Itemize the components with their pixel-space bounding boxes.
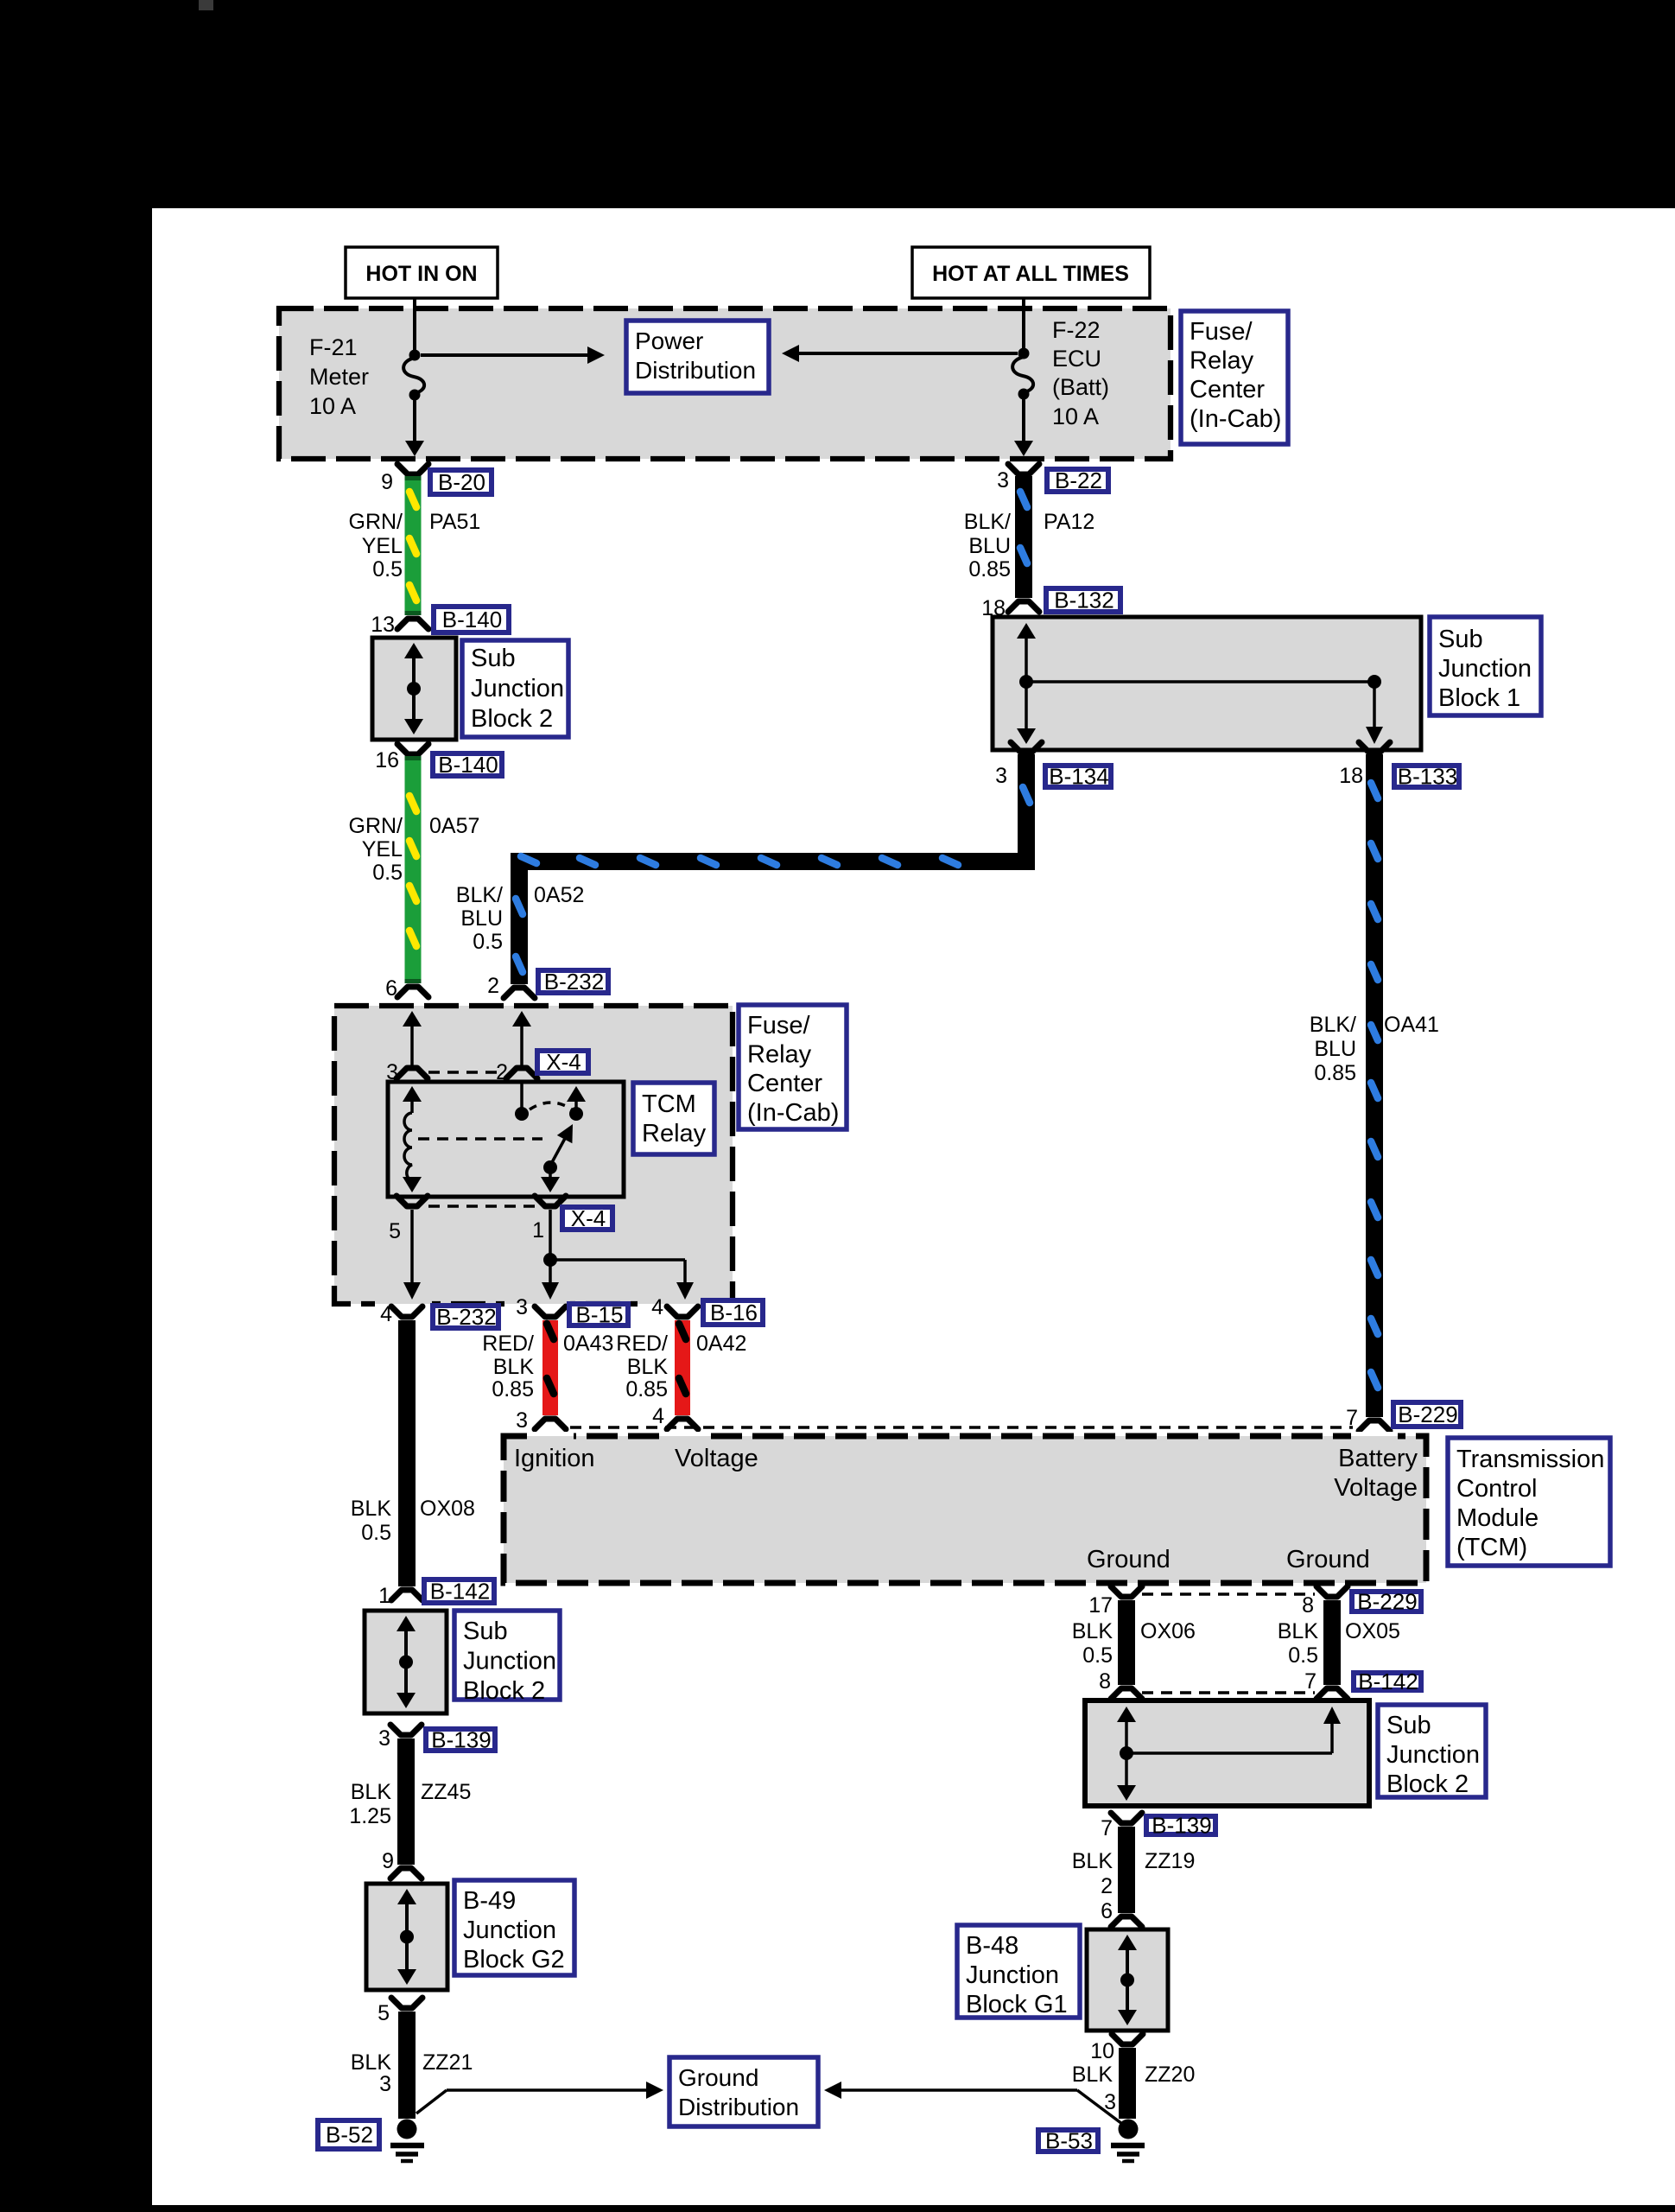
svg-text:F-22: F-22	[1052, 317, 1101, 343]
svg-text:OX06: OX06	[1140, 1619, 1196, 1643]
connector X-4 pin 1	[532, 1196, 566, 1243]
net name 0A52	[534, 883, 584, 907]
connector B-142 pin 8	[1099, 1669, 1142, 1699]
svg-text:B-53: B-53	[1045, 2128, 1093, 2154]
svg-text:BLK: BLK	[1072, 1849, 1113, 1873]
connector B-140 pin 16	[375, 744, 428, 772]
sub junction block 1	[993, 617, 1421, 750]
svg-text:2: 2	[487, 974, 499, 998]
label B-142 (left)	[424, 1579, 494, 1605]
label B-232 (bottom)	[433, 1304, 498, 1330]
connector B-15 pin 3 (top)	[516, 1295, 566, 1319]
svg-text:9: 9	[382, 1849, 394, 1873]
svg-text:ECU: ECU	[1052, 346, 1101, 372]
value label BLK 0.5 (OX06)	[1072, 1619, 1113, 1668]
connector pin 10 of B-48	[1090, 2034, 1143, 2063]
connector X-4 pin 3	[386, 1060, 428, 1084]
svg-text:(In-Cab): (In-Cab)	[1190, 405, 1281, 433]
value label GRN/YEL 0.5 (PA51)	[349, 510, 403, 582]
svg-text:Power: Power	[635, 327, 703, 354]
node HOT IN ON	[346, 247, 498, 298]
svg-text:ZZ20: ZZ20	[1145, 2063, 1195, 2087]
svg-text:Block 2: Block 2	[463, 1677, 545, 1705]
link TCM connector pins	[570, 1426, 1353, 1429]
connector B-229 pin 7	[1346, 1406, 1390, 1431]
label X-4 (bottom)	[562, 1205, 612, 1231]
svg-text:Battery: Battery	[1338, 1445, 1418, 1472]
link B-142 pins 8-7	[1142, 1691, 1315, 1694]
label B-52	[318, 2120, 379, 2149]
svg-text:18: 18	[1339, 764, 1363, 788]
svg-text:X-4: X-4	[571, 1205, 606, 1231]
svg-text:0A42: 0A42	[696, 1332, 746, 1356]
svg-text:3: 3	[379, 2072, 391, 2096]
net name OX05	[1345, 1619, 1400, 1643]
svg-text:Block 2: Block 2	[1386, 1770, 1469, 1798]
svg-text:Ground: Ground	[1286, 1546, 1370, 1573]
wire relay pin 1 down with branch	[542, 1210, 694, 1300]
connector B-139 pin 7	[1101, 1813, 1142, 1840]
svg-text:B-133: B-133	[1398, 764, 1457, 790]
value label BLK 1.25 (ZZ45)	[349, 1780, 391, 1828]
svg-text:YEL: YEL	[362, 837, 403, 861]
connector B-229 pin 8	[1302, 1586, 1348, 1618]
svg-text:B-48: B-48	[966, 1932, 1018, 1960]
fuse F-22 ECU (Batt) 10A	[1012, 317, 1109, 456]
svg-text:Ignition: Ignition	[514, 1445, 595, 1472]
label fuse/relay center (in-cab) 2	[739, 1005, 847, 1129]
connector B-140 pin 13	[371, 613, 428, 637]
value label GRN/YEL 0.5 (0A57)	[349, 814, 403, 885]
net name 0A57	[429, 814, 479, 838]
svg-text:3: 3	[997, 468, 1009, 493]
wire B-52 to ground distribution	[416, 2082, 663, 2113]
svg-text:B-52: B-52	[326, 2122, 373, 2148]
connector B-20 pin 9	[381, 464, 428, 494]
svg-text:2: 2	[1101, 1874, 1113, 1898]
link X-4 pins 3-2	[428, 1071, 504, 1074]
svg-text:BLK: BLK	[1278, 1619, 1319, 1643]
svg-text:Center: Center	[1190, 376, 1265, 404]
svg-text:Relay: Relay	[1190, 347, 1254, 375]
svg-text:B-140: B-140	[442, 607, 502, 632]
connector B-142 pin 7	[1304, 1669, 1348, 1699]
value label RED/BLK 0.85 (0A43)	[482, 1332, 534, 1402]
svg-text:BLK/: BLK/	[964, 510, 1011, 534]
connector B-133 pin 18	[1339, 742, 1390, 788]
svg-text:B-232: B-232	[544, 969, 604, 995]
label B-16	[703, 1300, 763, 1325]
svg-text:4: 4	[380, 1302, 392, 1326]
label B-139 (right)	[1146, 1813, 1215, 1839]
svg-text:(TCM): (TCM)	[1456, 1534, 1527, 1561]
wire ZZ21 BLK 3	[398, 2012, 416, 2119]
value label BLK 3 (ZZ20)	[1072, 2063, 1116, 2114]
svg-text:BLK: BLK	[351, 1497, 392, 1521]
wire ZZ19 BLK 2	[1118, 1827, 1135, 1913]
svg-text:0.85: 0.85	[968, 557, 1011, 582]
svg-text:0.5: 0.5	[372, 861, 403, 885]
label sub junction block 2 (left lower)	[454, 1611, 560, 1705]
svg-text:B-20: B-20	[438, 469, 485, 495]
svg-text:Distribution: Distribution	[635, 357, 756, 384]
value label BLK 0.5 (OX08)	[351, 1497, 392, 1545]
svg-text:Meter: Meter	[309, 364, 369, 390]
wire relay pin 5 down	[403, 1210, 421, 1300]
net name ZZ21	[422, 2050, 473, 2075]
svg-text:Voltage: Voltage	[1334, 1474, 1418, 1502]
label sub junction block 2 (right)	[1378, 1705, 1486, 1798]
label B-134	[1045, 764, 1111, 790]
svg-text:B-139: B-139	[431, 1727, 491, 1753]
svg-text:17: 17	[1088, 1593, 1113, 1618]
svg-text:4: 4	[652, 1404, 664, 1428]
svg-text:0A57: 0A57	[429, 814, 479, 838]
svg-text:BLU: BLU	[968, 534, 1011, 558]
svg-text:OX08: OX08	[420, 1497, 475, 1521]
label B-139 (left)	[426, 1727, 495, 1753]
svg-text:YEL: YEL	[362, 534, 403, 558]
arrow F-22 to Power Distribution	[782, 345, 1018, 362]
connector B-16 pin 4 (top)	[651, 1295, 698, 1319]
fuse F-21 Meter 10A	[309, 334, 424, 456]
label B-140 (top)	[434, 607, 509, 632]
svg-text:B-232: B-232	[436, 1304, 496, 1330]
svg-text:Junction: Junction	[463, 1648, 556, 1675]
label B-49 junction block G2	[454, 1880, 574, 1975]
svg-text:3: 3	[995, 764, 1007, 788]
wire OA41 BLK/BLU 0.85	[1366, 754, 1383, 1417]
wire into relay pin 3	[403, 1011, 422, 1066]
connector B-134 pin 3	[995, 742, 1042, 788]
net name 0A43	[563, 1332, 613, 1356]
relay switch	[515, 1084, 586, 1192]
wire OX08 BLK 0.5	[398, 1320, 416, 1586]
svg-text:B-15: B-15	[576, 1302, 624, 1328]
svg-text:Junction: Junction	[471, 675, 564, 702]
label B-142 (grounds)	[1354, 1669, 1421, 1694]
svg-text:Transmission: Transmission	[1456, 1446, 1604, 1473]
svg-text:BLK: BLK	[1072, 2063, 1113, 2087]
svg-text:HOT IN ON: HOT IN ON	[365, 262, 477, 286]
svg-text:BLK/: BLK/	[1310, 1013, 1356, 1037]
svg-text:B-22: B-22	[1055, 467, 1102, 493]
svg-text:B-142: B-142	[1358, 1669, 1418, 1694]
connector B-139 pin 3	[378, 1725, 422, 1751]
svg-text:7: 7	[1304, 1669, 1317, 1694]
svg-text:Ground: Ground	[1087, 1546, 1171, 1573]
ground symbol B-52	[390, 2120, 424, 2162]
wire into relay pin 2	[512, 1011, 531, 1066]
label transmission control module (TCM)	[1448, 1438, 1610, 1566]
label B-48 junction block G1	[957, 1925, 1080, 2018]
svg-text:3: 3	[378, 1726, 390, 1751]
svg-text:B-132: B-132	[1054, 588, 1113, 613]
svg-text:ZZ19: ZZ19	[1145, 1849, 1195, 1873]
svg-text:X-4: X-4	[546, 1049, 581, 1075]
value label RED/BLK 0.85 (0A42)	[616, 1332, 668, 1402]
net name OX08	[420, 1497, 475, 1521]
connector B-232 pin 6	[385, 976, 428, 1001]
svg-text:Module: Module	[1456, 1504, 1539, 1532]
value label BLK/BLU 0.5 (0A52)	[456, 883, 503, 954]
svg-text:0.5: 0.5	[372, 557, 403, 582]
wire B-53 to ground distribution	[824, 2082, 1122, 2124]
label B-140 (bottom)	[433, 752, 502, 778]
value label BLK/BLU 0.85 (OA41)	[1310, 1013, 1356, 1085]
svg-text:8: 8	[1099, 1669, 1111, 1694]
relay internal dashed link	[418, 1137, 542, 1141]
svg-text:13: 13	[371, 613, 395, 637]
svg-text:Junction: Junction	[1386, 1741, 1480, 1769]
svg-text:10 A: 10 A	[1052, 404, 1099, 429]
svg-text:1.25: 1.25	[349, 1804, 391, 1828]
svg-text:ZZ45: ZZ45	[421, 1780, 471, 1804]
svg-text:B-142: B-142	[430, 1579, 490, 1605]
svg-text:PA51: PA51	[429, 510, 480, 534]
svg-text:Voltage: Voltage	[675, 1445, 758, 1472]
label B-232 (top)	[538, 969, 608, 995]
svg-text:BLU: BLU	[460, 906, 503, 931]
label sub junction block 1	[1430, 617, 1541, 715]
svg-text:Control: Control	[1456, 1475, 1538, 1503]
svg-text:0.85: 0.85	[625, 1377, 668, 1402]
net name ZZ20	[1145, 2063, 1195, 2087]
wire 0A43 RED/BLK 0.85	[542, 1320, 558, 1415]
svg-text:B-140: B-140	[438, 752, 498, 778]
ground distribution box	[669, 2057, 818, 2126]
svg-text:0.5: 0.5	[1082, 1643, 1113, 1668]
connector pin 9 of B-49	[382, 1849, 422, 1878]
connector B-15 pin 3 (bottom)	[516, 1408, 566, 1433]
svg-text:BLK: BLK	[1072, 1619, 1113, 1643]
svg-text:B-134: B-134	[1049, 764, 1108, 790]
junction block B-49 G2	[366, 1884, 447, 1990]
svg-text:7: 7	[1101, 1816, 1113, 1840]
net name 0A42	[696, 1332, 746, 1356]
wire ZZ20 BLK 3	[1119, 2048, 1136, 2119]
svg-text:Ground: Ground	[678, 2064, 758, 2091]
svg-text:6: 6	[1101, 1899, 1113, 1923]
connector pin 6 of B-48	[1111, 1916, 1142, 1927]
svg-text:B-139: B-139	[1152, 1813, 1211, 1839]
svg-text:Distribution: Distribution	[678, 2094, 799, 2120]
connector B-229 pin 17	[1088, 1586, 1142, 1618]
svg-text:0.5: 0.5	[1288, 1643, 1318, 1668]
svg-text:Junction: Junction	[463, 1916, 556, 1944]
svg-text:BLK: BLK	[493, 1355, 535, 1379]
svg-text:(Batt): (Batt)	[1052, 374, 1109, 400]
net name PA51	[429, 510, 480, 534]
svg-text:6: 6	[385, 976, 397, 1001]
svg-text:OA41: OA41	[1384, 1013, 1439, 1037]
svg-text:ZZ21: ZZ21	[422, 2050, 473, 2075]
svg-text:B-229: B-229	[1357, 1589, 1417, 1615]
label B-132	[1046, 588, 1120, 613]
value label BLK 2 (ZZ19)	[1072, 1849, 1113, 1923]
svg-text:Fuse/: Fuse/	[747, 1012, 810, 1039]
connector B-16 pin 4 (bottom)	[652, 1404, 698, 1429]
label B-53	[1038, 2128, 1098, 2154]
svg-text:Block 2: Block 2	[471, 705, 553, 733]
svg-text:Fuse/: Fuse/	[1190, 318, 1253, 346]
svg-text:16: 16	[375, 748, 399, 772]
wire PA51 GRN/YEL 0.5	[405, 476, 422, 615]
connector X-4 pin 2	[496, 1060, 537, 1084]
transmission control module box	[504, 1432, 1426, 1583]
svg-text:Block G1: Block G1	[966, 1991, 1068, 2018]
sub junction block 2 (top)	[372, 638, 456, 740]
svg-text:4: 4	[651, 1295, 663, 1319]
svg-text:10 A: 10 A	[309, 393, 356, 419]
svg-text:0.85: 0.85	[1314, 1061, 1356, 1085]
svg-text:TCM: TCM	[642, 1090, 696, 1118]
relay coil	[403, 1086, 422, 1192]
svg-text:B-16: B-16	[710, 1300, 758, 1325]
net name OA41	[1384, 1013, 1439, 1037]
net name ZZ19	[1145, 1849, 1195, 1873]
svg-text:10: 10	[1090, 2039, 1114, 2063]
label B-15	[569, 1302, 628, 1328]
net name PA12	[1044, 510, 1094, 534]
connector B-232 pin 2	[487, 974, 535, 998]
svg-text:Block G2: Block G2	[463, 1946, 565, 1974]
svg-text:Relay: Relay	[747, 1041, 812, 1069]
connector B-142 pin 1	[378, 1584, 422, 1608]
label TCM relay	[633, 1083, 714, 1154]
svg-text:0.5: 0.5	[473, 930, 503, 954]
svg-text:BLK: BLK	[627, 1355, 669, 1379]
link X-4 pins 5-1	[428, 1205, 536, 1208]
sub junction block 2 (right)	[1085, 1700, 1369, 1806]
net name ZZ45	[421, 1780, 471, 1804]
svg-text:GRN/: GRN/	[349, 814, 403, 838]
wire HOT IN ON to F-21	[413, 298, 416, 352]
label sub junction block 2 (top)	[462, 640, 568, 737]
label fuse/relay center (in-cab) top	[1181, 311, 1288, 444]
label B-133	[1394, 764, 1459, 790]
svg-text:GRN/: GRN/	[349, 510, 403, 534]
svg-text:9: 9	[381, 470, 393, 494]
wire OX06 BLK 0.5	[1118, 1600, 1135, 1685]
value label BLK 0.5 (OX05)	[1278, 1619, 1319, 1668]
svg-text:B-229: B-229	[1398, 1402, 1457, 1427]
svg-text:0A43: 0A43	[563, 1332, 613, 1356]
node HOT AT ALL TIMES	[912, 247, 1150, 298]
svg-text:5: 5	[378, 2001, 390, 2025]
wire 0A52 BLK/BLU 0.5	[516, 754, 1030, 984]
svg-text:Center: Center	[747, 1070, 822, 1097]
svg-text:1: 1	[378, 1584, 390, 1608]
svg-text:BLK: BLK	[351, 2050, 392, 2075]
net name OX06	[1140, 1619, 1196, 1643]
svg-text:PA12: PA12	[1044, 510, 1094, 534]
wire 0A57 GRN/YEL 0.5	[405, 756, 422, 983]
svg-text:5: 5	[389, 1219, 401, 1243]
svg-text:OX05: OX05	[1345, 1619, 1400, 1643]
fuse/relay center (in-cab) box 2	[334, 1006, 733, 1311]
svg-text:Junction: Junction	[966, 1961, 1059, 1989]
fuse/relay center (in-cab) box top	[279, 308, 1171, 459]
svg-text:3: 3	[516, 1408, 528, 1433]
connector B-22 pin 3	[997, 464, 1039, 493]
svg-text:Relay: Relay	[642, 1120, 707, 1147]
svg-text:Sub: Sub	[1386, 1712, 1431, 1739]
svg-text:RED/: RED/	[482, 1332, 534, 1356]
svg-text:0.5: 0.5	[361, 1521, 391, 1545]
svg-text:Sub: Sub	[1438, 626, 1483, 653]
ground symbol B-53	[1111, 2120, 1145, 2162]
svg-text:8: 8	[1302, 1593, 1314, 1618]
wire ZZ45 BLK 1.25	[397, 1738, 415, 1865]
label B-229 (pin 7)	[1393, 1402, 1461, 1427]
wire OX05 BLK 0.5	[1323, 1600, 1341, 1685]
svg-text:BLK/: BLK/	[456, 883, 503, 907]
svg-text:1: 1	[532, 1218, 544, 1243]
label B-229 (grounds)	[1352, 1589, 1421, 1615]
svg-text:Junction: Junction	[1438, 655, 1532, 683]
svg-text:BLU: BLU	[1314, 1037, 1356, 1061]
svg-text:BLK: BLK	[351, 1780, 392, 1804]
power distribution box	[626, 321, 769, 393]
svg-text:0.85: 0.85	[492, 1377, 534, 1402]
svg-text:RED/: RED/	[616, 1332, 668, 1356]
svg-text:Sub: Sub	[463, 1618, 508, 1645]
arrow F-21 to Power Distribution	[421, 346, 605, 364]
svg-text:F-21: F-21	[309, 334, 358, 360]
junction block B-48 G1	[1087, 1929, 1168, 2031]
svg-text:3: 3	[516, 1295, 528, 1319]
svg-text:B-49: B-49	[463, 1887, 516, 1915]
wire 0A42 RED/BLK 0.85	[675, 1320, 690, 1415]
svg-text:Sub: Sub	[471, 645, 516, 672]
svg-text:Block 1: Block 1	[1438, 684, 1520, 712]
connector B-232 pin 4	[380, 1302, 422, 1326]
wire PA12 BLK/BLU 0.85	[1015, 476, 1032, 598]
connector pin 5 of B-49	[378, 1998, 422, 2025]
wire HOT AT ALL TIMES to F-22	[1022, 298, 1025, 350]
connector X-4 pin 5	[389, 1196, 428, 1243]
svg-text:HOT AT ALL TIMES: HOT AT ALL TIMES	[932, 262, 1129, 286]
connector B-132 pin 18	[981, 596, 1039, 620]
label B-22	[1047, 467, 1108, 493]
label X-4 (top)	[537, 1049, 588, 1075]
svg-text:0A52: 0A52	[534, 883, 584, 907]
sub junction block 2 (left lower)	[365, 1611, 447, 1713]
value label BLK 3 (ZZ21)	[351, 2050, 392, 2096]
label B-20	[430, 469, 492, 495]
svg-text:(In-Cab): (In-Cab)	[747, 1099, 839, 1127]
relay box TCM relay	[388, 1082, 624, 1197]
link B-229 pins 17-8	[1142, 1592, 1315, 1596]
value label BLK/BLU 0.85 (PA12)	[964, 510, 1011, 582]
